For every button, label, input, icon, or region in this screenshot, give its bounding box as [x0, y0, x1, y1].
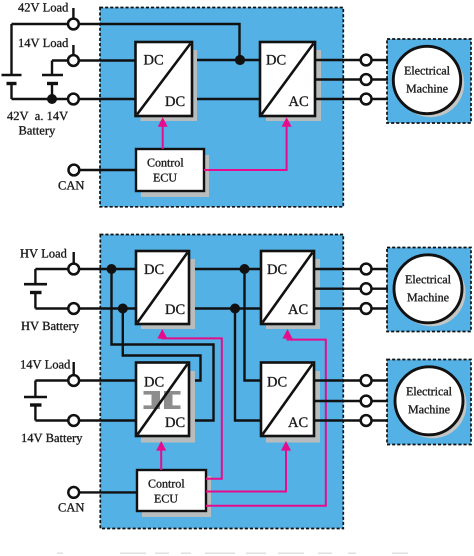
- converter U1 DC/DC (top diagram): [136, 42, 198, 121]
- wire DC/AC to machine phase 2: [314, 74, 388, 85]
- terminal HV battery: [68, 303, 79, 314]
- wire DC/DC to DC/AC bottom: [191, 98, 261, 100]
- terminal 14V load (bottom): [68, 362, 79, 386]
- node junction 42V bus: [235, 55, 245, 65]
- terminal battery: [68, 94, 79, 105]
- wire DC/DC to DC/AC top: [191, 59, 261, 61]
- electrical machine M3: [395, 367, 467, 439]
- wire control to DC/DC (magenta arrow): [158, 117, 168, 149]
- converter U5 DC/DC 14V isolated (bottom diagram): [136, 363, 195, 443]
- node junction HV bus top: [240, 264, 250, 274]
- wire control to lower DC/DC (magenta arrow): [156, 441, 166, 470]
- converter U6 DC/AC machine2 (bottom diagram): [261, 363, 320, 443]
- wire HV bus bottom to lower DC/AC input: [235, 309, 262, 421]
- wire HV battery rail: [35, 307, 137, 309]
- node junction HV bus bottom: [230, 304, 240, 314]
- wire HV load bus to 14V DC/DC output (nested link A): [112, 269, 214, 421]
- control ECU (bottom diagram): [137, 470, 211, 517]
- wire upper DC/AC to machine1 phase 1: [313, 264, 388, 275]
- node junction HV load: [107, 264, 117, 274]
- label 42V a. 14V Battery: [7, 112, 68, 138]
- wire 14V battery rail (bottom diagram): [35, 419, 137, 421]
- label 14V Battery (bottom): [22, 434, 82, 445]
- control ECU (top diagram): [136, 149, 209, 197]
- wire battery rail: [12, 98, 137, 100]
- terminal 14V battery (bottom): [68, 415, 79, 426]
- electrical machine M1: [393, 46, 464, 117]
- converter U4 DC/AC machine1 (bottom diagram): [261, 251, 320, 329]
- node junction battery rail: [47, 94, 57, 104]
- wire lower DC/AC to machine2 phase 3: [313, 415, 388, 426]
- wire control to DC/AC (magenta arrow): [204, 117, 292, 170]
- label 42V Load: [18, 3, 68, 12]
- power electronics unit box (top, blue dashed): [100, 8, 343, 207]
- wire lower DC/AC to machine2 phase 1: [313, 375, 388, 386]
- battery B2 14V: [42, 61, 63, 100]
- wire HV battery bus to 14V DC/DC output (nested link B): [123, 309, 201, 381]
- electrical machine M1 box (dashed blue): [387, 39, 471, 123]
- wire control to upper DC/DC (magenta arrow): [157, 329, 222, 479]
- node junction HV battery: [118, 304, 128, 314]
- converter U2 DC/AC (top diagram): [260, 42, 321, 121]
- electrical machine M3 box (dashed blue): [387, 360, 471, 445]
- power electronics unit box (bottom, blue dashed): [100, 235, 343, 529]
- label HV Battery: [21, 322, 79, 333]
- battery B4 14V: [24, 381, 47, 421]
- wire HV rail: [35, 268, 137, 270]
- wire upper DC/AC to machine1 phase 2: [313, 283, 388, 294]
- transformer symbol (gray): [144, 391, 181, 409]
- wire DC/AC to machine phase 3: [314, 94, 388, 105]
- terminal 14V load: [68, 45, 79, 66]
- wire control to upper DC/AC (magenta arrow): [206, 329, 326, 506]
- battery B3 HV: [24, 269, 47, 309]
- electrical machine M2 box (dashed blue): [387, 248, 471, 332]
- terminal CAN: [69, 165, 137, 176]
- terminal CAN (bottom): [68, 487, 137, 498]
- label CAN: [59, 181, 85, 189]
- wire DC/DC to DC/AC HV bottom: [188, 307, 262, 309]
- wire 14V rail: [52, 59, 136, 61]
- wire DC/AC to machine phase 1: [314, 55, 388, 66]
- wire DC/DC to DC/AC HV top: [188, 268, 262, 270]
- label 14V Load (bottom): [21, 360, 70, 369]
- label 14V Load: [19, 38, 68, 47]
- battery B1 42V: [2, 24, 22, 99]
- wire upper DC/AC to machine1 phase 3: [313, 303, 388, 314]
- terminal HV load: [68, 252, 79, 274]
- electrical machine M2: [394, 255, 466, 327]
- wire 14V rail (bottom diagram): [35, 379, 137, 381]
- wire 42V rail: [12, 24, 240, 60]
- wire HV bus top to lower DC/AC input: [245, 269, 263, 381]
- terminal 42V load: [68, 8, 79, 29]
- wire lower DC/AC to machine2 phase 2: [313, 396, 388, 407]
- wire control to lower DC/AC (magenta arrow): [206, 441, 291, 492]
- label CAN (bottom): [59, 503, 85, 511]
- converter U3 DC/DC HV (bottom diagram): [136, 251, 195, 329]
- caption sliver (cut-off figure caption): [57, 553, 408, 554]
- label HV Load: [20, 249, 66, 258]
